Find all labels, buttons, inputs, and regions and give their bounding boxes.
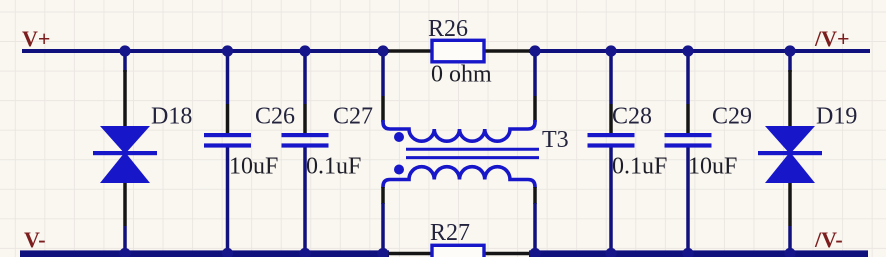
pin C26 top pin <box>226 104 230 133</box>
wire bottom rail V- right segment <box>529 250 868 257</box>
pin R27 pin 2 (right) <box>485 252 532 256</box>
node junction C28 / bottom rail <box>605 248 616 257</box>
svg-text:10uF: 10uF <box>229 154 278 180</box>
node T3 primary polarity dot <box>394 132 404 142</box>
wire T3 bottom-left vertical <box>381 203 385 253</box>
svg-text:T3: T3 <box>542 127 569 153</box>
capacitor C26 <box>204 133 251 148</box>
node junction C26 / bottom rail <box>222 248 233 257</box>
node junction D19 / top rail <box>784 45 795 56</box>
svg-text:0.1uF: 0.1uF <box>612 154 667 180</box>
svg-text:/V+: /V+ <box>814 26 850 51</box>
svg-text:C26: C26 <box>255 104 295 130</box>
wire C28 bottom vertical <box>609 147 613 253</box>
wire T3 bottom-right vertical <box>533 203 537 253</box>
pin D18 anode pin (top) <box>123 70 127 126</box>
svg-text:D18: D18 <box>151 104 192 130</box>
node junction D18 / bottom rail <box>119 248 130 257</box>
node junction T3 pin 2 / top rail <box>529 45 540 56</box>
svg-text:10uF: 10uF <box>688 154 737 180</box>
svg-text:D19: D19 <box>816 104 857 130</box>
wire C26 bottom vertical <box>226 147 230 253</box>
node junction T3 pin 3 / bottom rail <box>377 248 388 257</box>
pin C29 top pin <box>686 104 690 133</box>
wire C28 top vertical <box>609 51 613 104</box>
svg-text:C28: C28 <box>612 104 652 130</box>
pin R26 pin 1 (left) <box>386 49 431 53</box>
wire C27 top vertical <box>303 51 307 104</box>
svg-text:/V-: /V- <box>814 227 843 252</box>
wire D19 bottom vertical <box>788 226 792 253</box>
wire T3 top-right vertical <box>533 51 537 96</box>
resistor R27 <box>432 245 484 257</box>
svg-text:V-: V- <box>24 227 46 252</box>
wire top rail V+ right segment <box>529 49 870 53</box>
pin R26 pin 2 (right) <box>485 49 532 53</box>
resistor R26 <box>432 40 484 62</box>
wire C26 top vertical <box>226 51 230 104</box>
diode D19 bidirectional TVS <box>758 126 822 183</box>
node junction C28 / top rail <box>605 45 616 56</box>
node junction C27 / top rail <box>299 45 310 56</box>
pin T3 primary pin (top-left) <box>381 96 385 122</box>
wire T3 top-left vertical <box>381 51 385 96</box>
svg-text:R27: R27 <box>430 220 470 246</box>
node junction T3 pin 4 / bottom rail <box>529 248 540 257</box>
wire D18 top vertical <box>123 51 127 72</box>
pin T3 secondary pin (bottom-right) <box>533 187 537 204</box>
wire C27 bottom vertical <box>303 147 307 253</box>
pin D19 anode pin (top) <box>788 70 792 126</box>
svg-text:C27: C27 <box>333 104 373 130</box>
wire top rail V+ left segment <box>22 49 389 53</box>
transformer T3 primary winding <box>383 120 535 141</box>
capacitor C28 <box>588 133 635 148</box>
node junction C27 / bottom rail <box>299 248 310 257</box>
pin T3 secondary pin (bottom-left) <box>381 187 385 204</box>
transformer T3 secondary winding <box>383 167 535 188</box>
node junction D19 / bottom rail <box>784 248 795 257</box>
wire bottom rail V- left segment <box>20 250 389 257</box>
wire C29 top vertical <box>686 51 690 104</box>
wire C29 bottom vertical <box>686 147 690 253</box>
pin C27 top pin <box>303 104 307 133</box>
pin R27 pin 1 (left) <box>386 252 431 256</box>
capacitor C27 <box>282 133 329 148</box>
node T3 secondary polarity dot <box>394 165 404 175</box>
pin T3 primary pin (top-right) <box>533 96 537 122</box>
wire D18 bottom vertical <box>123 226 127 253</box>
svg-text:V+: V+ <box>22 26 50 51</box>
capacitor C29 <box>665 133 712 148</box>
node junction C29 / top rail <box>682 45 693 56</box>
svg-text:C29: C29 <box>712 104 752 130</box>
pin C28 top pin <box>609 104 613 133</box>
node junction T3 pin 1 / top rail <box>377 45 388 56</box>
node junction C29 / bottom rail <box>682 248 693 257</box>
wire D19 top vertical <box>788 51 792 72</box>
node junction C26 / top rail <box>222 45 233 56</box>
pin D18 cathode pin (bottom) <box>123 183 127 226</box>
transformer T3 core lines <box>406 149 539 157</box>
svg-text:0 ohm: 0 ohm <box>431 62 492 88</box>
diode D18 bidirectional TVS <box>93 126 157 183</box>
svg-text:0.1uF: 0.1uF <box>306 154 361 180</box>
svg-text:R26: R26 <box>428 16 468 42</box>
pin D19 cathode pin (bottom) <box>788 183 792 226</box>
node junction D18 / top rail <box>119 45 130 56</box>
